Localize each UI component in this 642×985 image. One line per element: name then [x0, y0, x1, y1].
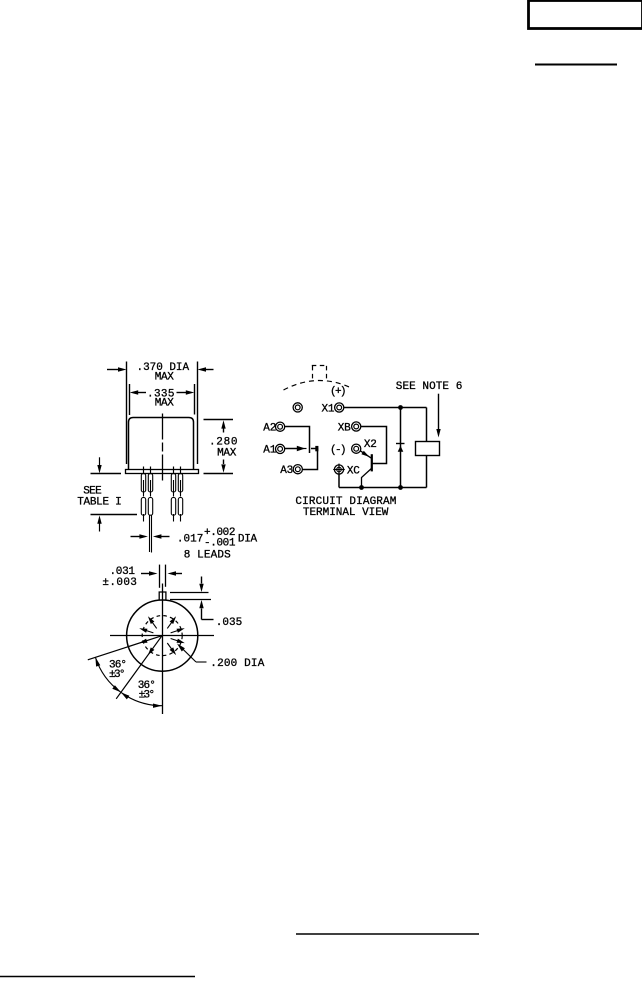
- lead position arrow 234deg: [148, 647, 155, 655]
- svg-text:XB: XB: [338, 422, 351, 434]
- revision underline: [535, 64, 617, 66]
- transistor X2 base bar: [371, 454, 373, 471]
- lead position arrow 162deg: [139, 628, 153, 633]
- arrow pointing down to seating plane: [97, 457, 101, 473]
- bottom left rule: [0, 976, 195, 978]
- svg-text:.200 DIA: .200 DIA: [210, 658, 264, 670]
- arrow pointing up to lead length line: [97, 515, 101, 531]
- svg-text:±3°: ±3°: [109, 669, 126, 681]
- wire X1 to coil branch: [344, 407, 427, 409]
- lead dia dimension right arrow: [153, 534, 170, 538]
- svg-text:8 LEADS: 8 LEADS: [184, 550, 231, 562]
- lead 4: [178, 474, 182, 522]
- wire down to relay coil: [426, 408, 428, 442]
- vertical centerline: [162, 584, 164, 715]
- lead circle .200 DIA (dashed): [142, 616, 182, 656]
- terminal XB: [352, 422, 361, 431]
- lead dia dimension left arrow: [131, 534, 148, 538]
- terminal X2: [352, 444, 361, 453]
- bottom center rule: [296, 933, 479, 935]
- svg-text:X2: X2: [364, 439, 377, 451]
- svg-text:TERMINAL VIEW: TERMINAL VIEW: [303, 507, 389, 519]
- terminal A2: [276, 422, 285, 431]
- lead 2 (long, dimensioned): [148, 474, 152, 553]
- dashed can outline arc: [284, 381, 353, 390]
- svg-text:X1: X1: [322, 404, 335, 416]
- .280 arrow up: [221, 420, 225, 432]
- svg-text:MAX: MAX: [155, 371, 175, 383]
- dimension .335 left arrow: [130, 390, 146, 394]
- terminal XC (case): [333, 464, 345, 476]
- wire XB to collector: [361, 427, 387, 464]
- lead position arrow 342deg: [171, 639, 185, 644]
- transistor collector lead: [362, 469, 372, 488]
- svg-text:.035: .035: [216, 617, 243, 629]
- .280 bottom extension line: [204, 473, 234, 475]
- .035 arrow up and leader: [199, 600, 213, 620]
- arc arrowhead at 234 upper: [112, 685, 121, 692]
- lead length extension line (lower): [91, 514, 138, 516]
- horizontal centerline: [110, 635, 214, 637]
- .280 top extension line: [204, 419, 234, 421]
- arc arrowhead at 234 lower: [121, 692, 129, 699]
- arc arrowhead at 270: [153, 704, 162, 708]
- terminal A3: [293, 465, 302, 474]
- diode branch wire: [400, 408, 402, 488]
- lead position arrow 18deg: [171, 628, 185, 633]
- lead stubs at flange: [144, 467, 181, 474]
- wire coil bottom: [426, 456, 428, 488]
- radial line at 234deg: [116, 636, 162, 699]
- .280 arrow down: [221, 460, 225, 473]
- vertical centerline of can: [162, 414, 164, 482]
- svg-text:TABLE I: TABLE I: [77, 496, 122, 508]
- svg-text:A2: A2: [263, 423, 276, 435]
- transistor emitter lead with arrow: [360, 451, 371, 459]
- svg-text:MAX: MAX: [155, 398, 175, 410]
- dashed tab outline: [312, 366, 327, 382]
- lead 3: [171, 474, 175, 522]
- extension line .370 left: [126, 362, 128, 465]
- junction node emitter-bottom: [359, 485, 364, 490]
- svg-text:MAX: MAX: [217, 448, 237, 460]
- bottom return wire: [339, 487, 427, 489]
- svg-text:DIA: DIA: [238, 534, 258, 546]
- extension line .335 left: [129, 384, 131, 415]
- tab top extension line: [170, 592, 209, 594]
- wire XC to bottom: [338, 474, 340, 487]
- svg-text:CIRCUIT DIAGRAM: CIRCUIT DIAGRAM: [295, 496, 396, 508]
- outer circle (can bottom): [127, 600, 198, 671]
- A3 contact tick: [315, 446, 318, 451]
- svg-text:A3: A3: [280, 465, 293, 477]
- seating plane extension line (upper): [91, 473, 122, 475]
- svg-text:-.001: -.001: [204, 537, 236, 549]
- lead position arrow 54deg: [167, 616, 176, 628]
- flange (header rim): [126, 470, 199, 474]
- .031 dimension left arrow: [141, 571, 158, 575]
- svg-text:(+): (+): [330, 386, 347, 398]
- svg-text:A1: A1: [263, 444, 276, 456]
- svg-text:SEE NOTE 6: SEE NOTE 6: [396, 381, 463, 393]
- see note arrow: [436, 394, 440, 438]
- extension line .370 right: [197, 362, 199, 465]
- terminal X1: [335, 403, 344, 412]
- wire A2 contact: [285, 427, 310, 454]
- svg-text:.017: .017: [177, 534, 204, 546]
- angle arc 234-270: [121, 692, 162, 705]
- .031 dimension right arrow: [168, 571, 183, 575]
- leader arrow to lead circle: [177, 644, 207, 663]
- lead 1 (upper and lower segments): [141, 474, 145, 522]
- dimension arrow .370 right: [198, 367, 214, 371]
- relay coil K1: [416, 442, 440, 456]
- dimension .335 right arrow: [177, 390, 195, 394]
- dimension arrow .370 left: [107, 367, 127, 371]
- svg-text:XC: XC: [347, 466, 360, 478]
- can body outline: [129, 418, 194, 470]
- junction node bottom: [398, 485, 403, 490]
- wire A3 contact: [303, 449, 318, 470]
- terminal A1: [276, 444, 285, 453]
- circle top extension line: [170, 599, 211, 601]
- radial line at 198deg: [88, 636, 162, 660]
- wire A1 armature with arrow: [285, 446, 307, 451]
- tab extension line left: [159, 565, 161, 588]
- junction node top: [398, 405, 403, 410]
- revision box (top right): [529, 1, 642, 29]
- angle arc 198-234: [95, 657, 121, 692]
- svg-text:(-): (-): [330, 445, 347, 457]
- lead position arrow 126deg: [148, 616, 157, 628]
- lead position arrow 306deg: [167, 643, 176, 655]
- arc arrowhead at 198: [95, 657, 100, 666]
- index tab: [159, 592, 166, 600]
- .035 arrow down: [199, 577, 203, 593]
- svg-text:.280: .280: [209, 436, 238, 448]
- diode CR1: [396, 444, 405, 452]
- lead position arrow 198deg: [139, 639, 147, 644]
- svg-text:±3°: ±3°: [139, 689, 156, 701]
- extension line .335 right: [194, 384, 196, 415]
- tab extension line right: [165, 565, 167, 587]
- svg-text:±.003: ±.003: [102, 577, 136, 589]
- terminal (unlabeled): [293, 403, 302, 412]
